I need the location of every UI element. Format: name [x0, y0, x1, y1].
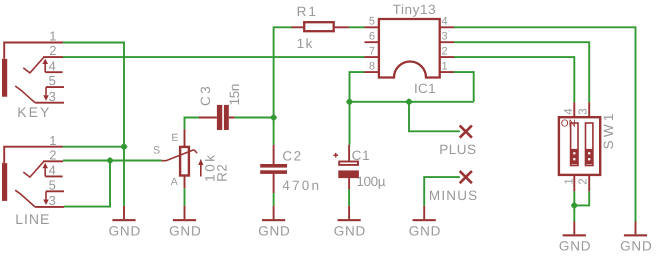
- wire C1 bottom to GND: [348, 189, 350, 206]
- LINE pin 3 line: [35, 206, 64, 208]
- wire MINUS to GND: [424, 177, 460, 206]
- svg-text:4: 4: [49, 163, 56, 178]
- svg-text:5: 5: [49, 177, 56, 192]
- SW1 pin numbers: [563, 108, 590, 185]
- wire IC1 pin8 to bus: [350, 72, 365, 102]
- LINE tip lever: [23, 162, 43, 177]
- KEY pin 1 line: [4, 43, 63, 59]
- svg-text:R2: R2: [214, 164, 229, 182]
- trimmer R2: [153, 129, 229, 188]
- junction LINE pin2/pin3/R2.S: [106, 157, 113, 164]
- svg-text:1: 1: [49, 29, 56, 44]
- svg-text:GND: GND: [109, 224, 141, 239]
- node PLUS: [439, 126, 476, 157]
- svg-text:C2: C2: [282, 148, 302, 163]
- LINE pin 4 line: [45, 175, 62, 177]
- KEY pin 5 arrow: [45, 87, 47, 95]
- LINE pin 4 arrow: [44, 168, 46, 176]
- svg-text:1: 1: [563, 178, 575, 184]
- wire C3 right to junction: [235, 117, 274, 119]
- svg-text:GND: GND: [258, 224, 290, 239]
- svg-text:A: A: [171, 176, 178, 188]
- wire bus under IC1: [350, 101, 474, 103]
- svg-text:2: 2: [49, 147, 56, 162]
- svg-text:GND: GND: [559, 239, 591, 254]
- LINE pin 5 line: [46, 190, 64, 192]
- svg-text:C1: C1: [352, 148, 371, 163]
- svg-text:2: 2: [578, 178, 590, 184]
- svg-text:100µ: 100µ: [356, 174, 385, 189]
- svg-text:5: 5: [49, 73, 56, 88]
- wire C2 bottom to GND: [273, 193, 275, 206]
- junction KEY/LINE pin1 net: [120, 143, 127, 150]
- svg-text:GND: GND: [169, 224, 201, 239]
- svg-text:15n: 15n: [227, 84, 242, 105]
- svg-text:R1: R1: [297, 4, 318, 19]
- wire IC1 pin3 to SW1 pin3: [454, 42, 589, 102]
- svg-text:2: 2: [49, 43, 56, 58]
- resistor R1: [292, 4, 350, 51]
- ground under C2: [258, 206, 290, 239]
- junction pin8/C1: [346, 98, 353, 105]
- svg-text:7: 7: [369, 46, 375, 58]
- capacitor C3: [198, 84, 242, 130]
- wire KEY pin2 to IC1 pin7: [63, 56, 365, 58]
- LINE pin numbers: [49, 133, 57, 208]
- svg-text:SW1: SW1: [601, 110, 616, 149]
- KEY pin 2 line: [43, 56, 63, 58]
- wire SW1 pin2 to junction: [574, 191, 589, 205]
- KEY pin 5 line: [46, 86, 64, 88]
- svg-text:ON: ON: [561, 118, 576, 129]
- KEY pin 4 arrow: [44, 64, 46, 72]
- connector KEY: [2, 43, 64, 103]
- junction PLUS branch: [405, 98, 412, 105]
- ground under MINUS: [409, 206, 441, 239]
- ground under C1: [334, 206, 366, 239]
- svg-text:C3: C3: [198, 84, 213, 106]
- IC IC1 Tiny13: [365, 2, 455, 96]
- capacitor C1 (electrolytic): [333, 145, 385, 190]
- wires (green nets): [63, 27, 636, 221]
- svg-text:E: E: [171, 132, 178, 144]
- svg-text:KEY: KEY: [17, 104, 51, 120]
- wire junction to PLUS: [409, 102, 460, 132]
- connector LINE: [2, 147, 64, 207]
- svg-text:6: 6: [369, 31, 375, 43]
- wire R2 A to GND: [184, 188, 186, 206]
- svg-text:PLUS: PLUS: [439, 142, 476, 157]
- wire LINE pin1: [63, 146, 124, 148]
- wire LINE pin3 to junction: [64, 161, 110, 207]
- wire bus to C1 plus: [349, 102, 351, 145]
- wire bus to IC1 pin1: [454, 72, 474, 102]
- svg-text:3: 3: [442, 31, 448, 43]
- svg-text:4: 4: [442, 16, 448, 28]
- svg-text:MINUS: MINUS: [429, 188, 479, 203]
- svg-text:3: 3: [49, 89, 56, 104]
- LINE sleeve bar: [2, 163, 7, 201]
- svg-text:GND: GND: [409, 224, 441, 239]
- svg-text:GND: GND: [334, 224, 366, 239]
- node MINUS: [429, 171, 479, 203]
- IC1 pin numbers: [369, 16, 448, 73]
- wire IC1 pin4 to GND far right: [454, 27, 636, 221]
- LINE ring lever: [15, 190, 35, 207]
- svg-text:1: 1: [442, 61, 448, 73]
- KEY ring lever: [15, 86, 35, 103]
- wire IC1 pin2 to SW1 pin4: [454, 57, 574, 102]
- wire junction to C2 top: [273, 118, 275, 145]
- svg-text:3: 3: [49, 193, 56, 208]
- wire R1 right to IC1 pin5: [349, 26, 365, 28]
- ground under jacks: [109, 206, 141, 239]
- KEY pin 4 line: [45, 71, 62, 73]
- junction SW1 GND: [571, 202, 578, 209]
- ground under R2: [169, 206, 201, 239]
- KEY pin 3 line: [35, 102, 64, 104]
- KEY sleeve bar: [2, 59, 7, 97]
- svg-text:5: 5: [369, 16, 375, 28]
- LINE pin 2 line: [43, 160, 63, 162]
- junction R1/C3/C2: [270, 114, 277, 121]
- svg-text:2: 2: [442, 46, 448, 58]
- svg-text:3: 3: [578, 108, 590, 114]
- wire R1 left to C3/C2 junction: [274, 27, 293, 117]
- svg-text:8: 8: [369, 61, 375, 73]
- SW1 slider 1: [571, 123, 578, 166]
- capacitor C2: [260, 145, 321, 193]
- KEY pin numbers: [49, 29, 57, 104]
- svg-text:S: S: [153, 144, 160, 156]
- SW1 slider 2: [586, 123, 593, 166]
- LINE pin 1 line: [4, 147, 63, 163]
- svg-text:Tiny13: Tiny13: [393, 2, 437, 17]
- KEY tip lever: [23, 58, 43, 73]
- wire SW1 pin1 to GND: [573, 191, 575, 221]
- switch SW1: [559, 102, 616, 191]
- LINE pin 5 arrow: [45, 191, 47, 199]
- ground far right: [620, 222, 652, 254]
- wire LINE pin2 to R2 S: [63, 160, 162, 162]
- wire KEY pin1 to LINE pin1 to GND: [63, 43, 124, 206]
- svg-text:470n: 470n: [282, 178, 321, 193]
- svg-text:GND: GND: [620, 239, 652, 254]
- svg-text:IC1: IC1: [414, 81, 436, 96]
- svg-text:LINE: LINE: [15, 211, 50, 227]
- ground under SW1: [559, 222, 591, 254]
- svg-text:1: 1: [49, 133, 56, 148]
- svg-text:1k: 1k: [297, 36, 314, 51]
- wire C3 left to R2 E: [185, 118, 200, 130]
- svg-text:4: 4: [563, 108, 575, 115]
- svg-text:4: 4: [49, 58, 56, 73]
